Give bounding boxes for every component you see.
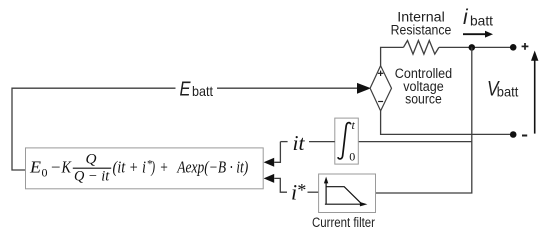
minus terminal sign	[522, 135, 527, 137]
arrow V batt (vertical, head at top)	[531, 51, 538, 134]
minus sign inside diamond	[378, 101, 383, 103]
svg-text:Q: Q	[86, 152, 97, 168]
filter graph x axis	[325, 202, 368, 206]
wire current sense bus: junction down and left to filter output	[376, 47, 472, 193]
svg-text:(it + i: (it + i	[113, 158, 147, 177]
svg-text:it: it	[293, 131, 306, 155]
label Internal Resistance	[391, 9, 452, 37]
equation text	[29, 152, 248, 185]
integrator box U2	[335, 118, 359, 164]
wire resistor to plus terminal	[439, 46, 513, 48]
label Controlled voltage source	[395, 66, 452, 107]
svg-text:): )	[151, 158, 155, 177]
wire diamond bottom to minus terminal	[381, 111, 510, 134]
label V batt	[487, 78, 518, 101]
wire it label to eq box with arrowhead	[264, 142, 288, 167]
svg-text:batt: batt	[497, 84, 519, 100]
wire integrator input to it label	[309, 141, 335, 143]
filter graph y axis	[324, 177, 328, 204]
filter graph response curve	[326, 187, 361, 204]
junction node at i batt takeoff	[469, 44, 476, 51]
svg-text:K: K	[61, 158, 72, 177]
plus terminal sign	[522, 43, 529, 50]
svg-text:Aexp(−B · it): Aexp(−B · it)	[176, 158, 248, 177]
svg-text:source: source	[405, 91, 442, 106]
current filter box U3	[319, 174, 376, 213]
node i* label	[291, 180, 306, 205]
svg-text:Current filter: Current filter	[312, 215, 375, 230]
op-amp U1 controlled voltage source diamond	[370, 66, 391, 111]
svg-text:batt: batt	[192, 83, 213, 99]
svg-text:Resistance: Resistance	[391, 23, 452, 38]
node Ebatt label	[180, 79, 214, 101]
label i batt	[463, 6, 493, 29]
arrow i batt direction	[463, 31, 493, 38]
equation box E0	[26, 148, 264, 189]
svg-text:batt: batt	[470, 13, 493, 29]
node negative terminal dot	[510, 131, 517, 138]
integral sign with limits	[338, 118, 356, 164]
wire feedback loop left (eq box output up to Ebatt line)	[12, 88, 176, 170]
svg-text:Q − it: Q − it	[74, 168, 110, 184]
wire i* to current filter input	[308, 191, 319, 193]
wire Ebatt to controlled source	[217, 87, 358, 89]
resistor internal resistance zigzag	[403, 41, 439, 55]
wire i* label to eq box with arrowhead	[264, 174, 287, 192]
svg-text:E: E	[180, 79, 192, 101]
svg-text:*: *	[297, 180, 306, 200]
wire integrator output to bus	[358, 141, 472, 143]
svg-text:0: 0	[42, 166, 48, 180]
svg-text:−: −	[51, 158, 61, 177]
svg-text:+: +	[160, 158, 168, 177]
wire diamond top to resistor	[381, 47, 404, 65]
node positive terminal dot	[510, 44, 517, 51]
arrowhead into controlled source	[357, 83, 371, 94]
plus sign inside diamond	[378, 71, 383, 76]
svg-text:0: 0	[349, 150, 355, 164]
svg-text:i: i	[463, 6, 469, 29]
svg-text:E: E	[29, 158, 41, 177]
